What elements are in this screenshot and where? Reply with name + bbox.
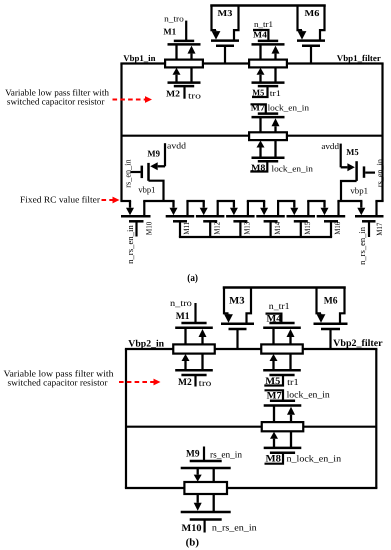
M9/M10b top-left stub with down arrow	[197, 468, 199, 475]
wire: right vertical rail (b)	[375, 349, 377, 488]
M4/M5b top gate bar	[269, 322, 294, 325]
svg-text:M7: M7	[251, 103, 266, 113]
svg-text:tr1: tr1	[270, 88, 281, 98]
M2b gate lead	[194, 375, 196, 387]
wire: second horizontal net (b)	[126, 426, 376, 428]
M6b right source lead from rail	[340, 288, 345, 324]
M4/M5 bottom channel bar	[252, 81, 285, 84]
svg-text:n_lock_en_in: n_lock_en_in	[287, 454, 342, 464]
svg-text:M5: M5	[346, 147, 359, 157]
svg-text:M1: M1	[176, 311, 190, 322]
wire: main horizontal net Vbp1_in to Vbp1_filter	[120, 62, 383, 64]
svg-text:M4: M4	[267, 314, 282, 325]
M5r drain lead to avdd with right arrow	[340, 144, 342, 168]
M1/M2b bottom gate bar	[181, 374, 206, 377]
M1/M2 pass-gate cross body	[165, 60, 203, 68]
wire: right vertical rail	[381, 64, 383, 202]
M15 arrowed lead from wire	[293, 201, 295, 208]
svg-text:lock_en_in: lock_en_in	[268, 103, 310, 113]
svg-text:rs_en_in: rs_en_in	[122, 159, 132, 188]
M3 down arrow onto channel	[215, 29, 217, 32]
M3b channel bar	[221, 323, 254, 326]
wire: left vertical rail (b)	[125, 349, 127, 488]
M13 gate bar	[233, 220, 247, 223]
M1/M2b bottom-right stub	[201, 354, 203, 371]
M6b gate lead down to wire	[329, 329, 331, 349]
M5r channel bar	[355, 161, 358, 181]
M5r source lead down to bottom wire	[341, 181, 357, 201]
M3 left drain lead from rail	[212, 6, 217, 31]
svg-text:lock_en_in: lock_en_in	[272, 163, 314, 173]
M7/M8 top channel bar	[252, 116, 285, 119]
wire: common gate bus of M11-M16	[179, 236, 332, 238]
svg-text:n_rs_en_in: n_rs_en_in	[357, 226, 367, 265]
svg-text:M14: M14	[273, 222, 282, 235]
M17 channel bar	[355, 215, 384, 218]
M6b channel bar	[314, 323, 348, 326]
M3 right source lead from rail	[234, 6, 239, 41]
svg-text:switched capacitor resistor: switched capacitor resistor	[8, 378, 108, 388]
M14 channel bar	[256, 215, 285, 218]
M10 plain lead from wire	[143, 201, 145, 216]
M6 gate lead down to wire	[310, 46, 312, 64]
M14 gate bar	[264, 220, 278, 223]
svg-text:M13: M13	[243, 222, 252, 235]
M7/M8 bottom-right stub	[274, 140, 276, 158]
svg-text:M5: M5	[265, 376, 280, 387]
M15 channel bar	[287, 215, 316, 218]
M1/M2b bottom-left stub with up arrow	[184, 361, 186, 370]
svg-text:vbp1: vbp1	[350, 185, 368, 195]
M11 gate bar	[173, 220, 187, 223]
M4/M5 pass-gate cross body	[249, 60, 287, 68]
M9 source lead down to bottom wire	[149, 181, 164, 201]
svg-text:M16: M16	[333, 222, 342, 235]
M7/M8 top-left source/drain stub	[259, 117, 261, 132]
M1/M2 bottom gate bar	[174, 85, 194, 88]
M6 left drain lead from rail	[298, 6, 303, 31]
M14 gate lead	[270, 221, 272, 237]
M4/M5b top channel bar	[263, 327, 301, 330]
svg-text:M3: M3	[229, 295, 245, 306]
M4/M5b pass-gate cross body	[261, 344, 303, 353]
M9 gate lead	[131, 171, 141, 173]
svg-text:Vbp2_filter: Vbp2_filter	[333, 338, 383, 349]
M4/M5b bottom-left stub with up arrow	[272, 361, 274, 370]
M7/M8 bottom channel bar	[252, 157, 285, 160]
M17 plain lead from wire	[375, 201, 377, 216]
M12 gate bar	[203, 220, 217, 223]
M7/M8b bottom channel bar	[264, 447, 302, 450]
M7 gate wire overline and drop	[251, 104, 266, 113]
M7/M8 bottom-left stub with up arrow	[259, 148, 261, 158]
M7/M8 top-right stub with up arrow	[274, 126, 276, 132]
M1b gate lead to n_tro	[194, 303, 196, 323]
red dashed arrow (a) upper	[113, 99, 146, 101]
M4b gate overline and drop	[266, 314, 282, 323]
wire: second horizontal net through M7/M8 gate pair	[122, 135, 383, 137]
svg-text:rs_en_in: rs_en_in	[374, 158, 384, 187]
M6 down arrow onto channel	[301, 29, 303, 32]
svg-text:M6: M6	[305, 8, 320, 18]
svg-text:n_tro: n_tro	[170, 298, 192, 308]
M9/M10b bottom channel bar	[181, 511, 231, 514]
M3b left drain lead from rail	[224, 288, 229, 314]
wire: top rail between M3 and M6	[210, 4, 326, 7]
svg-text:avdd: avdd	[167, 141, 187, 151]
M16 channel bar	[317, 215, 346, 218]
M14 arrowed lead from wire	[263, 201, 265, 208]
M10b gate lead down	[204, 520, 206, 533]
M1/M2 top-left source/drain stub	[175, 44, 177, 59]
svg-text:M10: M10	[145, 222, 154, 235]
svg-text:Vbp2_in: Vbp2_in	[128, 339, 164, 350]
svg-text:tro: tro	[188, 90, 201, 100]
M1/M2b pass-gate cross body	[173, 344, 215, 353]
svg-text:M9: M9	[147, 148, 160, 158]
M4/M5 bottom-left stub with up arrow	[259, 75, 261, 83]
svg-text:tro: tro	[199, 378, 212, 388]
M13 channel bar	[226, 215, 255, 218]
M3b gate bar	[229, 328, 247, 331]
M5b gate drop and underline	[264, 375, 283, 386]
M9/M10b top-right stub	[213, 468, 215, 482]
M3 channel bar	[211, 39, 239, 42]
red dashed arrow (a) lower	[102, 199, 113, 201]
M9 channel bar	[147, 163, 150, 181]
M4/M5 bottom gate bar	[258, 85, 278, 88]
svg-text:avdd: avdd	[321, 141, 339, 151]
M8 gate wire drop and underline	[250, 161, 267, 171]
M11 arrowed lead from wire	[172, 201, 174, 208]
M3b right source lead from rail	[247, 288, 252, 324]
M7/M8b top channel bar	[264, 404, 302, 407]
M1/M2b top channel bar	[175, 327, 213, 330]
M7/M8b top-left source/drain stub	[273, 406, 275, 423]
M7/M8b pass-gate cross body	[262, 422, 304, 431]
M7/M8 bottom gate bar	[258, 160, 278, 163]
M9/M10b bottom-left stub with down arrow	[197, 494, 199, 503]
M1/M2 top channel bar	[168, 43, 201, 46]
M3 gate lead down to wire	[224, 46, 226, 64]
svg-text:Fixed RC value filter: Fixed RC value filter	[20, 195, 100, 205]
M9/M10b top channel bar	[181, 467, 231, 470]
M16 gate bar	[324, 220, 338, 223]
M7b gate overline and drop	[265, 390, 284, 400]
svg-text:n_tr1: n_tr1	[254, 19, 273, 29]
M9/M10b pass-gate cross body	[184, 482, 227, 494]
svg-text:M17: M17	[375, 223, 384, 236]
M9 drain lead to avdd with left arrow	[164, 143, 166, 166]
M1 gate lead to n_tro	[185, 21, 187, 41]
svg-text:M7: M7	[267, 390, 282, 401]
M7/M8 top gate bar	[258, 112, 278, 115]
M12 channel bar	[196, 215, 225, 218]
M6b left drain lead from rail	[317, 288, 322, 314]
M10 gate bar	[129, 220, 144, 223]
M3b down arrow onto channel	[227, 313, 229, 316]
svg-text:vbp1: vbp1	[138, 184, 155, 194]
M3b gate lead down to wire	[236, 329, 238, 349]
M15 gate lead	[300, 221, 302, 237]
M16 plain lead from wire	[337, 201, 339, 216]
svg-text:M5: M5	[252, 87, 264, 97]
M6 right source lead from rail	[320, 6, 325, 41]
M17 gate bar	[362, 220, 376, 223]
M13 arrowed lead from wire	[233, 201, 235, 208]
svg-text:lock_en_in: lock_en_in	[287, 390, 331, 400]
M6 gate bar	[302, 45, 320, 48]
M12 arrowed lead from wire	[203, 201, 205, 208]
svg-text:M15: M15	[303, 222, 312, 235]
svg-text:M1: M1	[163, 27, 176, 37]
M11 channel bar	[166, 215, 195, 218]
M14 plain lead from wire	[277, 201, 279, 216]
M1/M2b top-right stub with up arrow	[201, 337, 203, 344]
M11 gate lead	[179, 221, 181, 237]
M5r gate lead	[365, 172, 375, 174]
M4/M5b top-right stub with up arrow	[289, 337, 291, 344]
M15 gate bar	[294, 220, 308, 223]
M4/M5b bottom-right stub	[289, 354, 291, 371]
M7/M8b bottom-left stub with up arrow	[273, 439, 275, 448]
M10 channel bar	[121, 215, 151, 218]
M10 arrowed lead from wire	[129, 201, 131, 208]
M1/M2b bottom channel bar	[175, 369, 213, 372]
M8b gate drop and underline	[265, 453, 284, 464]
wire: bottom horizontal net (b)	[125, 487, 378, 489]
M10 gate lead	[135, 221, 137, 236]
M3 gate bar	[216, 45, 234, 48]
M4/M5 top channel bar	[252, 43, 285, 46]
M2 gate lead	[183, 86, 185, 99]
M9/M10b top gate bar	[190, 460, 222, 463]
svg-text:M11: M11	[182, 222, 191, 235]
wire: left vertical rail	[120, 64, 122, 202]
wire: bottom horizontal net (RC filter chain, segmented through series mos)	[120, 200, 131, 202]
M7/M8b top gate bar	[270, 399, 295, 402]
svg-text:Vbp1_filter: Vbp1_filter	[337, 53, 381, 63]
M9/M10b bottom gate bar	[190, 518, 222, 521]
svg-text:M4: M4	[253, 30, 268, 40]
svg-text:(a): (a)	[187, 273, 198, 284]
svg-text:rs_en_in: rs_en_in	[210, 450, 242, 460]
M1/M2 bottom channel bar	[168, 81, 201, 84]
M7/M8 pass-gate cross body	[249, 132, 287, 140]
M1/M2 top gate bar	[174, 40, 194, 43]
svg-text:M2: M2	[166, 89, 181, 99]
M11 plain lead from wire	[186, 201, 188, 216]
M7/M8b top-right stub with up arrow	[290, 415, 292, 422]
M6b down arrow onto channel	[320, 313, 322, 316]
wire: top rail between M3 and M6 (b)	[223, 286, 346, 289]
svg-text:M2: M2	[178, 377, 192, 388]
svg-text:M8: M8	[251, 162, 266, 172]
svg-text:tr1: tr1	[287, 377, 299, 387]
M4/M5b top-left source/drain stub	[272, 328, 274, 345]
M1/M2 bottom-left stub with up arrow	[175, 75, 177, 83]
svg-text:n_rs_en_in: n_rs_en_in	[212, 523, 257, 533]
M1/M2b top gate bar	[181, 322, 206, 325]
svg-text:M6: M6	[324, 296, 338, 307]
M1/M2 top-right stub with up arrow	[190, 54, 192, 60]
svg-text:M9: M9	[186, 449, 200, 460]
svg-text:switched capacitor resistor: switched capacitor resistor	[7, 97, 105, 107]
svg-text:M8: M8	[266, 454, 282, 465]
M16 arrowed lead from wire	[323, 201, 325, 208]
M9/M10b bottom-right stub	[213, 494, 215, 512]
svg-text:(b): (b)	[186, 538, 200, 549]
M4/M5b bottom gate bar	[269, 374, 294, 377]
M4 gate wire overline and drop	[253, 30, 268, 41]
M15 plain lead from wire	[307, 201, 309, 216]
M4/M5 bottom-right stub	[274, 67, 276, 82]
M7/M8b bottom gate bar	[270, 451, 295, 454]
M4/M5 top gate bar	[258, 40, 278, 43]
M4/M5 top-left source/drain stub	[259, 44, 261, 59]
M17 arrowed lead from wire	[360, 201, 362, 208]
wire: main horizontal net Vbp2_in to Vbp2_filter	[125, 348, 378, 350]
svg-text:M12: M12	[212, 222, 221, 235]
M5r gate bar	[363, 166, 366, 177]
svg-text:n_tr1: n_tr1	[269, 301, 290, 311]
M4/M5 top-right stub with up arrow	[274, 54, 276, 60]
M9 gate bar	[141, 166, 144, 179]
M5 gate wire drop and underline	[252, 86, 268, 97]
M1/M2 bottom-right stub	[190, 67, 192, 82]
M9b gate lead up	[203, 447, 205, 462]
svg-text:M3: M3	[218, 8, 233, 18]
M4/M5b bottom channel bar	[263, 369, 301, 372]
M6 channel bar	[297, 39, 325, 42]
svg-text:M10: M10	[182, 523, 202, 534]
M17 gate lead	[368, 221, 370, 237]
M16 gate lead	[330, 221, 332, 237]
M6b gate bar	[321, 328, 340, 331]
M12 gate lead	[209, 221, 211, 237]
svg-text:n_tro: n_tro	[164, 13, 184, 23]
M7/M8b bottom-right stub	[290, 431, 292, 448]
red dashed arrow (b)	[119, 381, 154, 383]
M1/M2b top-left source/drain stub	[184, 328, 186, 345]
svg-text:n_rs_en_in: n_rs_en_in	[125, 225, 135, 264]
svg-text:Vbp1_in: Vbp1_in	[123, 53, 155, 63]
M13 gate lead	[239, 221, 241, 237]
M12 plain lead from wire	[217, 201, 219, 216]
M13 plain lead from wire	[247, 201, 249, 216]
